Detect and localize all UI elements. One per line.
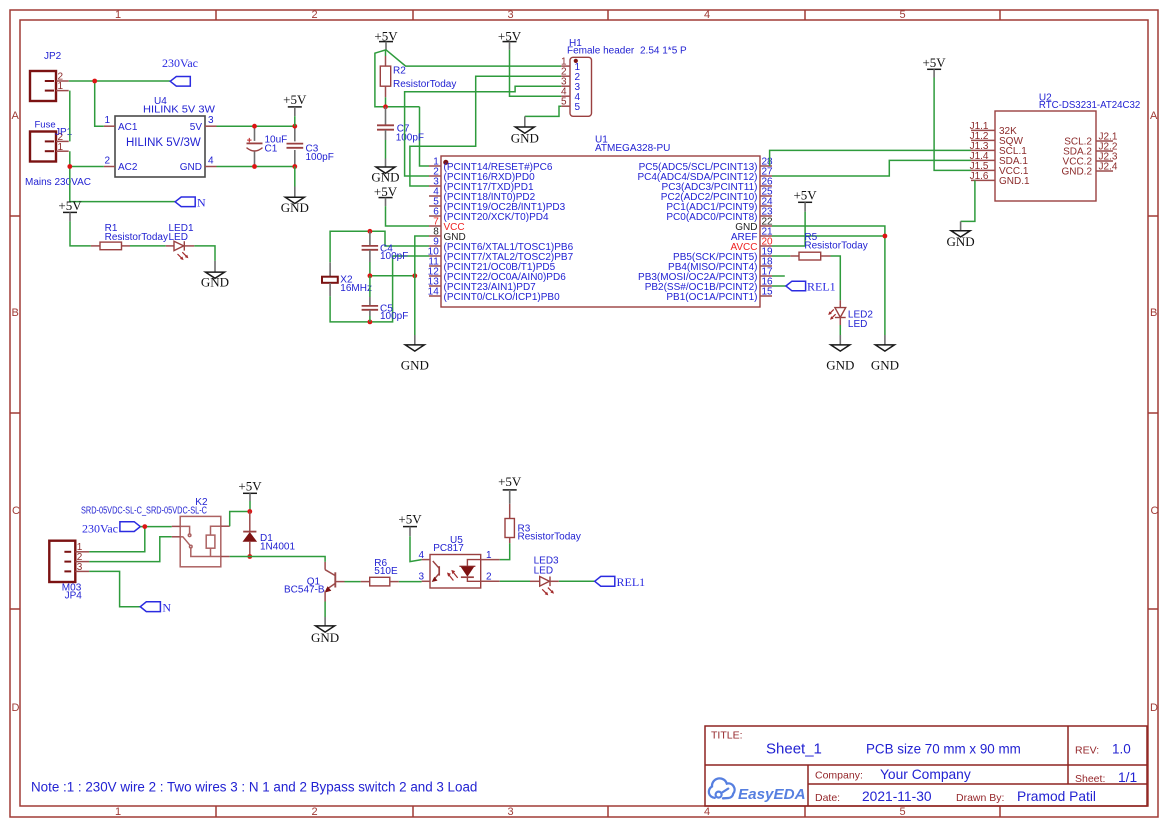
svg-text:C1: C1	[265, 144, 278, 155]
capacitor C7	[377, 107, 424, 144]
svg-text:Female header: Female header	[567, 45, 635, 56]
wire +5V fan to RESET pullup rail	[375, 50, 420, 107]
wire XTAL1 rail	[330, 231, 429, 262]
junction C3 bottom	[292, 164, 297, 169]
svg-text:3: 3	[418, 572, 424, 583]
pin J1.2 SQW	[971, 139, 995, 141]
pin J1.6 GND.1	[971, 179, 995, 181]
pin 5 PD3	[429, 205, 441, 207]
svg-text:AC1: AC1	[118, 122, 138, 133]
svg-text:A: A	[1150, 110, 1158, 122]
svg-text:Fuse: Fuse	[35, 119, 56, 130]
svg-text:+5V: +5V	[374, 184, 398, 199]
capacitor C1	[247, 126, 288, 166]
svg-text:510E: 510E	[374, 566, 398, 577]
svg-text:2: 2	[486, 572, 492, 583]
wire crystal midpoint to GND net	[370, 275, 415, 277]
wire JP4.2 to K2 switch	[89, 537, 172, 562]
pin 1 PC6	[429, 165, 441, 167]
pin 14 PB0	[429, 295, 441, 297]
svg-text:5V: 5V	[190, 122, 203, 133]
pin 9 PB6	[429, 245, 441, 247]
svg-text:GND: GND	[201, 275, 229, 290]
svg-text:ResistorToday: ResistorToday	[393, 79, 456, 90]
pin 5 of H1	[561, 105, 570, 107]
wire C7 to ground	[385, 140, 387, 159]
wire H1.5 to ground	[525, 106, 562, 116]
svg-text:K2: K2	[195, 497, 208, 508]
svg-text:4: 4	[704, 806, 710, 818]
pin 11 PD5	[429, 265, 441, 267]
power +5V (AVCC)	[793, 187, 817, 212]
wire coil to Q1 collector	[230, 557, 325, 562]
svg-text:D: D	[1150, 702, 1158, 714]
svg-text:1: 1	[486, 550, 492, 561]
wire JP1.1 to AC2 and N flag	[70, 151, 175, 201]
junction R2/C7	[383, 104, 388, 109]
junction mid-right	[412, 273, 417, 278]
connector M03 JP4	[49, 541, 89, 602]
pin 2 of U5	[481, 580, 500, 582]
wire +5V to U2 VCC.1	[934, 78, 971, 171]
pin 28 PC5	[760, 165, 772, 167]
wire U1 pin27 to U2 SDA.1	[772, 160, 971, 176]
wire LED3 to REL1 flag	[559, 580, 595, 582]
svg-text:GND: GND	[947, 234, 975, 249]
net flag 230Vac	[162, 56, 198, 86]
LED1	[166, 223, 195, 260]
svg-text:+5V: +5V	[922, 55, 946, 70]
pin 4 of U5	[422, 559, 430, 561]
svg-text:2021-11-30: 2021-11-30	[862, 789, 932, 804]
RTC module U2	[970, 92, 1141, 201]
svg-text:5: 5	[575, 102, 581, 113]
pin 8 GND	[429, 235, 441, 237]
junction C1 top	[252, 124, 257, 129]
svg-text:+5V: +5V	[283, 92, 307, 107]
wire +5V to C3 rail	[294, 116, 296, 126]
svg-text:GND: GND	[281, 200, 309, 215]
svg-text:JP2: JP2	[44, 51, 62, 62]
svg-text:ResistorToday: ResistorToday	[105, 232, 168, 243]
junction at 94.7,81	[92, 79, 97, 84]
svg-text:GND.1: GND.1	[999, 176, 1030, 187]
wire JP4.3 to N flag	[89, 571, 140, 606]
svg-text:+5V: +5V	[58, 198, 82, 213]
power +5V (relay coil)	[238, 479, 262, 501]
svg-text:BC547-B: BC547-B	[284, 584, 325, 595]
power +5V (U1 VCC)	[374, 184, 398, 206]
pin 10 PB7	[429, 255, 441, 257]
wire R3 to U5 pin1	[500, 543, 510, 560]
svg-text:Sheet_1: Sheet_1	[766, 740, 822, 757]
pin 19 PB5	[760, 255, 772, 257]
wire +5V to U1 pin20 AVCC	[772, 212, 805, 246]
svg-text:14: 14	[428, 286, 440, 297]
wire H1.3 to U1 pin2	[405, 86, 562, 176]
ground (pin22)	[871, 335, 899, 373]
svg-text:GND: GND	[826, 358, 854, 373]
pin 2 PD0	[429, 175, 441, 177]
svg-text:N: N	[197, 195, 206, 209]
pin 15 PB1	[760, 295, 772, 297]
svg-text:LED: LED	[534, 565, 553, 576]
svg-text:100pF: 100pF	[380, 251, 408, 262]
connector JP2	[30, 51, 69, 130]
wire +5V to R1	[70, 221, 91, 246]
svg-text:GND.2: GND.2	[1061, 167, 1092, 178]
pin 24 PC1	[760, 205, 772, 207]
svg-text:2: 2	[312, 9, 318, 21]
svg-text:REL1: REL1	[617, 575, 646, 589]
svg-text:3: 3	[508, 806, 514, 818]
pin 1 of JP2	[56, 90, 69, 92]
svg-text:D: D	[12, 702, 20, 714]
ground (LED1)	[201, 261, 229, 290]
pin 2 of JP1	[56, 140, 69, 142]
net flag REL1 (U1)	[786, 279, 836, 293]
svg-text:HILINK 5V 3W: HILINK 5V 3W	[143, 105, 216, 116]
wire Q1 emitter to ground	[324, 602, 326, 618]
wire H1.2 to U1 pin3	[410, 76, 561, 186]
svg-text:B: B	[1150, 307, 1157, 319]
pin 3 of JP4	[75, 570, 89, 572]
svg-text:LED: LED	[169, 232, 188, 243]
svg-text:+5V: +5V	[498, 474, 522, 489]
LED3	[530, 556, 559, 596]
svg-text:5: 5	[561, 97, 567, 108]
wire R6 to U5 pin3	[399, 581, 422, 583]
junction mid-left	[368, 273, 373, 278]
svg-text:ATMEGA328-PU: ATMEGA328-PU	[595, 143, 670, 154]
svg-text:R2: R2	[393, 66, 406, 77]
svg-text:TITLE:: TITLE:	[711, 730, 743, 742]
resistor R3	[505, 504, 581, 543]
pin 23 PC0	[760, 215, 772, 217]
wire U1 pin22 GND down	[772, 226, 885, 335]
pin J1.1 32K	[971, 129, 995, 131]
pin 12 PD6	[429, 275, 441, 277]
svg-text:GND: GND	[180, 162, 202, 173]
svg-text:J1.6: J1.6	[970, 171, 989, 182]
svg-text:ResistorToday: ResistorToday	[518, 531, 581, 542]
pin 25 PC2	[760, 195, 772, 197]
svg-text:Date:: Date:	[815, 792, 840, 804]
svg-text:Drawn By:: Drawn By:	[956, 792, 1004, 804]
ground (LED2)	[826, 335, 854, 373]
resistor R2	[380, 50, 456, 107]
svg-text:4: 4	[704, 9, 710, 21]
svg-text:Sheet:: Sheet:	[1075, 773, 1105, 785]
wire R1 to LED1	[130, 245, 166, 247]
pin 21 AREF	[760, 235, 772, 237]
EasyEDA logo	[709, 778, 806, 803]
power +5V (R1 feed)	[58, 198, 82, 221]
svg-text:100pF: 100pF	[380, 311, 408, 322]
svg-text:230Vac: 230Vac	[82, 522, 118, 536]
pin 1 of H1	[561, 65, 570, 67]
svg-text:1N4001: 1N4001	[260, 541, 295, 552]
junction C3 top	[292, 124, 297, 129]
capacitor C5	[362, 276, 409, 322]
ground (Q1)	[311, 617, 339, 645]
pin J1.3 SCL.1	[971, 149, 995, 151]
connector JP1	[25, 127, 91, 188]
svg-text:+5V: +5V	[793, 187, 817, 202]
svg-text:1: 1	[58, 81, 64, 92]
svg-text:+5V: +5V	[398, 511, 422, 526]
pin J2.3 VCC.2	[1096, 160, 1113, 162]
svg-text:1: 1	[58, 142, 64, 153]
svg-text:N: N	[162, 600, 171, 614]
pin 13 PD7	[429, 285, 441, 287]
pin J2.1 SCL.2	[1096, 140, 1113, 142]
junction D1 top	[247, 509, 252, 514]
wire RESET rail down to U1 pin1	[420, 107, 430, 166]
wire +5V to H1 pin4	[510, 50, 562, 96]
diode D1 1N4001	[243, 512, 296, 557]
wire U1 pin8 GND down	[415, 236, 429, 335]
pin J2.4 GND.2	[1096, 170, 1113, 172]
crystal X2	[322, 262, 372, 296]
header H1	[561, 38, 687, 116]
svg-text:C: C	[1151, 505, 1159, 517]
wire LED1 to ground	[194, 246, 215, 261]
optocoupler U5 PC817	[418, 535, 499, 588]
LED2	[828, 300, 873, 330]
wire U1 pin17 stub	[772, 275, 785, 277]
wire XTAL2 rail	[330, 256, 429, 322]
svg-text:Your Company: Your Company	[880, 767, 971, 782]
svg-text:LED: LED	[848, 319, 867, 330]
svg-text:HILINK 5V/3W: HILINK 5V/3W	[126, 137, 201, 149]
junction at 69.8,166.5	[67, 164, 72, 169]
K2 pin stubs	[172, 525, 181, 527]
ground (U2)	[947, 221, 975, 248]
svg-text:A: A	[12, 110, 20, 122]
pin 16 PB2	[760, 285, 772, 287]
junction C4 top	[368, 229, 373, 234]
net flag N (relay)	[140, 600, 171, 614]
power +5V (above C3)	[283, 92, 307, 116]
pin 22 GND	[760, 225, 772, 227]
pin 27 PC4	[760, 175, 772, 177]
wire U4.3 output rail	[217, 125, 295, 127]
microcontroller U1 ATMEGA328-PU	[441, 135, 760, 308]
svg-text:1: 1	[105, 115, 111, 126]
svg-text:3: 3	[77, 562, 83, 573]
junction C1 bottom	[252, 164, 257, 169]
svg-text:1/1: 1/1	[1118, 770, 1137, 785]
wire R5 to LED2	[831, 256, 841, 300]
svg-text:16MHz: 16MHz	[340, 283, 372, 294]
svg-text:1: 1	[115, 806, 121, 818]
pin 3 PD1	[429, 185, 441, 187]
capacitor C3	[287, 126, 334, 166]
svg-text:100pF: 100pF	[396, 133, 424, 144]
pin J2.2 SDA.2	[1096, 150, 1113, 152]
pin 4 PD2	[429, 195, 441, 197]
ground (H1.5)	[511, 116, 539, 145]
svg-text:230Vac: 230Vac	[162, 56, 198, 70]
svg-text:Mains 230VAC: Mains 230VAC	[25, 177, 91, 188]
pin 26 PC3	[760, 185, 772, 187]
net flag N (top)	[175, 195, 206, 209]
svg-text:B: B	[12, 307, 19, 319]
svg-text:2: 2	[312, 806, 318, 818]
pin J1.5 VCC.1	[971, 169, 995, 171]
pin J1.4 SDA.1	[971, 159, 995, 161]
pin 4 GND	[205, 166, 217, 168]
svg-text:2.54 1*5 P: 2.54 1*5 P	[640, 45, 687, 56]
svg-text:REV:: REV:	[1075, 744, 1099, 756]
svg-text:GND: GND	[311, 630, 339, 645]
pin 20 AVCC	[760, 245, 772, 247]
U5 light arrows	[453, 572, 458, 578]
pin 4 of H1	[561, 95, 570, 97]
resistor R5	[790, 232, 867, 260]
svg-text:2: 2	[105, 156, 111, 167]
pin 1 AC1	[104, 125, 115, 127]
pin 2 of JP4	[75, 561, 89, 563]
svg-text:J2.4: J2.4	[1099, 161, 1118, 172]
pin 1 of JP1	[56, 150, 69, 152]
pin 3 of U5	[422, 580, 430, 582]
pin 7 VCC	[429, 225, 441, 227]
svg-text:3: 3	[508, 9, 514, 21]
svg-text:Note :1 : 230V wire 2 : Two wi: Note :1 : 230V wire 2 : Two wires 3 : N …	[31, 779, 477, 794]
wire LED2 to ground	[839, 325, 841, 335]
wire JP2.2 to 230Vac flag and AC1	[69, 81, 171, 126]
svg-text:GND: GND	[511, 130, 539, 145]
svg-text:SRD-05VDC-SL-C_SRD-05VDC-SL-C: SRD-05VDC-SL-C_SRD-05VDC-SL-C	[81, 505, 207, 516]
resistor R1	[91, 223, 168, 250]
ground (C7)	[371, 159, 399, 185]
power +5V (H1 pin4)	[498, 28, 522, 49]
power +5V (U5 pin4)	[398, 511, 422, 536]
svg-text:15: 15	[762, 286, 774, 297]
svg-text:4: 4	[418, 550, 424, 561]
power +5V (R2 / H1.1)	[374, 28, 398, 49]
junction 230Vac	[142, 524, 147, 529]
svg-text:ResistorToday: ResistorToday	[804, 241, 867, 252]
svg-text:RTC-DS3231-AT24C32: RTC-DS3231-AT24C32	[1039, 100, 1140, 111]
wire U1 pin28 to U2 SCL.1	[428, 165, 430, 167]
pin 2 of JP2	[56, 80, 69, 82]
resistor R6 510E	[361, 558, 399, 586]
svg-text:1: 1	[115, 9, 121, 21]
wire +5V to D1 and coil	[230, 501, 250, 526]
wire +5V to U1 pin7 VCC	[386, 206, 430, 226]
svg-text:3: 3	[208, 115, 214, 126]
wire C3 rail to ground	[294, 167, 296, 187]
U5 internal phototransistor	[438, 566, 440, 575]
wire Q1 base to R6	[345, 581, 361, 583]
wire U1 pin19 to R5	[772, 255, 790, 257]
pin 3 5V	[205, 125, 217, 127]
power +5V (U2 VCC.1)	[922, 55, 946, 78]
svg-text:REL1: REL1	[807, 279, 836, 293]
pin 18 PB4	[760, 265, 772, 267]
pin 1 of U5	[481, 559, 500, 561]
ground (U1 pin8)	[401, 335, 429, 373]
svg-text:Pramod Patil: Pramod Patil	[1017, 789, 1096, 804]
svg-text:GND: GND	[371, 170, 399, 185]
wire +5V to U5 pin4	[410, 536, 422, 561]
wire U5 pin2 to LED3	[500, 580, 530, 582]
regulator module U4	[104, 96, 217, 177]
svg-text:5: 5	[900, 806, 906, 818]
svg-text:JP4: JP4	[65, 590, 83, 601]
power +5V (R3)	[498, 474, 522, 504]
junction AREF/GND	[883, 234, 888, 239]
net flag REL1 (relay)	[595, 575, 645, 589]
svg-text:PCB size 70 mm x 90 mm: PCB size 70 mm x 90 mm	[866, 741, 1021, 756]
capacitor C4	[362, 231, 409, 275]
svg-text:+5V: +5V	[238, 479, 262, 494]
wire +5V fan to H1 pin1	[386, 50, 561, 66]
pin 3 of H1	[561, 85, 570, 87]
svg-text:C: C	[12, 505, 20, 517]
wire U1 pin16 to REL1	[772, 285, 786, 287]
U5 internal LED	[467, 560, 480, 567]
svg-text:PC817: PC817	[433, 543, 464, 554]
pin 6 PD4	[429, 215, 441, 217]
title block	[705, 726, 1147, 806]
svg-text:1.0: 1.0	[1112, 741, 1131, 756]
wire U1 pin21 AREF	[772, 235, 885, 237]
svg-text:EasyEDA: EasyEDA	[738, 786, 806, 803]
wire U2 GND.1 to ground	[961, 180, 975, 221]
junction C5 bottom	[368, 320, 373, 325]
pin 2 AC2	[104, 166, 115, 168]
pin 1 of JP4	[75, 551, 89, 553]
svg-text:AC2: AC2	[118, 162, 138, 173]
svg-text:5: 5	[900, 9, 906, 21]
svg-text:4: 4	[208, 156, 214, 167]
svg-text:PB1(OC1A/PCINT1): PB1(OC1A/PCINT1)	[666, 292, 757, 303]
wire JP2.1 to JP1.2	[69, 91, 71, 142]
ground (C3)	[281, 187, 309, 215]
svg-text:(PCINT0/CLKO/ICP1)PB0: (PCINT0/CLKO/ICP1)PB0	[444, 292, 561, 303]
pin 17 PB3	[760, 275, 772, 277]
junction D1 bottom	[247, 554, 252, 559]
wire U4.4 ground rail	[217, 166, 295, 168]
relay K2	[172, 497, 230, 567]
transistor Q1 BC547-B	[284, 562, 345, 602]
wire 230Vac to K2 and JP4.1	[89, 527, 172, 552]
svg-text:GND: GND	[871, 358, 899, 373]
svg-text:GND: GND	[401, 358, 429, 373]
svg-text:100pF: 100pF	[306, 152, 334, 163]
pin 2 of H1	[561, 75, 570, 77]
net flag 230Vac (relay)	[82, 522, 140, 536]
svg-text:Company:: Company:	[815, 770, 863, 782]
